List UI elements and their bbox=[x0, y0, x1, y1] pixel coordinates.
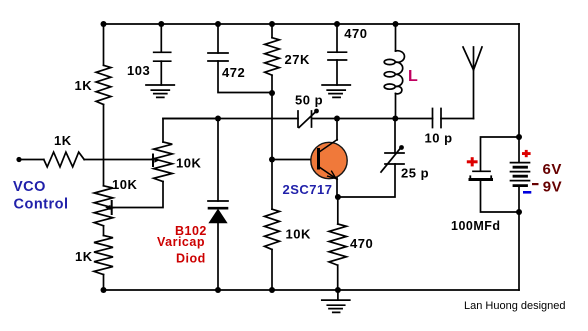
wire 27K bottom to node bbox=[271, 75, 273, 93]
antenna bbox=[463, 47, 482, 119]
wire 470 cap to ground bbox=[336, 60, 338, 85]
ground under 470 cap bbox=[322, 85, 350, 97]
wire right column top (rail to battery +) bbox=[518, 24, 520, 162]
trimmer capacitor 50p plates bbox=[298, 111, 312, 127]
transistor Q1 2SC717 bbox=[311, 140, 347, 180]
node bottom rail left bbox=[101, 287, 107, 293]
node 25p arrow tip bbox=[399, 145, 404, 150]
capacitor 10p plates bbox=[433, 109, 442, 128]
wire left column middle bbox=[103, 105, 105, 186]
wire VCO input terminal lead bbox=[19, 159, 44, 161]
node varicap bbox=[215, 116, 221, 122]
svg-text:10K: 10K bbox=[286, 227, 311, 242]
svg-text:VCO: VCO bbox=[13, 179, 46, 195]
svg-text:L: L bbox=[408, 68, 418, 85]
svg-text:1K: 1K bbox=[54, 133, 72, 148]
node rail L bbox=[393, 21, 399, 27]
node bottom rail varicap bbox=[215, 287, 221, 293]
wire base node to transistor base bbox=[272, 159, 318, 161]
wire 472 cap top lead bbox=[217, 24, 219, 53]
battery BT1 plates bbox=[511, 163, 530, 181]
wire top supply rail bbox=[104, 23, 520, 25]
node battery plus bbox=[516, 134, 522, 140]
wire varicap node down bbox=[217, 119, 219, 202]
svg-text:Lan Huong designed: Lan Huong designed bbox=[464, 300, 566, 312]
svg-text:470: 470 bbox=[344, 26, 367, 41]
capacitor 470 plates bbox=[328, 52, 347, 60]
svg-text:472: 472 bbox=[222, 65, 245, 80]
wire varicap to bottom rail bbox=[217, 223, 219, 290]
wire pot1 top lead to varicap node bbox=[163, 119, 218, 143]
trimmer 25p arrow bbox=[381, 148, 401, 173]
label minus 9V bbox=[532, 183, 539, 185]
wire left column top (rail to R 1K) bbox=[103, 24, 105, 65]
wire L top lead bbox=[395, 24, 397, 51]
pot2 wiper bar and tip bbox=[111, 201, 113, 214]
wire 25p top lead bbox=[394, 119, 396, 154]
node VCO input terminal bbox=[16, 157, 21, 162]
wire emitter node to 470 resistor bbox=[337, 197, 339, 224]
node base bbox=[269, 157, 275, 163]
label minus battery blue bbox=[523, 191, 531, 194]
svg-text:470: 470 bbox=[350, 236, 373, 251]
capacitor 472 plates bbox=[208, 53, 228, 61]
svg-text:Diod: Diod bbox=[176, 251, 206, 265]
node L bottom bbox=[392, 116, 398, 122]
svg-text:25 p: 25 p bbox=[401, 166, 429, 181]
node bottom rail 10K bbox=[269, 287, 275, 293]
wire input node to pot wiper bbox=[84, 159, 153, 161]
svg-text:Varicap: Varicap bbox=[157, 235, 205, 249]
node rail 470 bbox=[334, 21, 340, 27]
node rail 472 bbox=[215, 21, 221, 27]
wire 103 cap top lead bbox=[160, 24, 162, 52]
node collector tank bbox=[334, 116, 340, 122]
potentiometer VR1 10K body bbox=[154, 142, 173, 182]
wire left column to bottom rail bbox=[103, 275, 105, 291]
svg-text:10 p: 10 p bbox=[425, 131, 453, 146]
node emitter bbox=[335, 194, 341, 200]
wire emitter down bbox=[336, 178, 338, 198]
inductor L coil bbox=[396, 51, 405, 94]
svg-text:10K: 10K bbox=[112, 177, 137, 192]
trimmer capacitor 25p plates bbox=[385, 153, 404, 164]
svg-text:2SC717: 2SC717 bbox=[283, 182, 333, 197]
wire collector up to tank node bbox=[336, 119, 338, 141]
ground under 103 bbox=[146, 85, 174, 97]
svg-text:27K: 27K bbox=[285, 52, 310, 67]
svg-text:9V: 9V bbox=[543, 179, 562, 196]
resistor R 1K (bottom left vertical) bbox=[94, 236, 113, 275]
wire right column bottom (battery - to bottom rail) bbox=[518, 187, 520, 291]
svg-text:100MFd: 100MFd bbox=[451, 219, 501, 233]
wire 10p right to antenna bbox=[441, 118, 474, 120]
node rail 27K bbox=[269, 21, 275, 27]
wire left column below pot bbox=[103, 226, 105, 236]
resistor R 1K (horizontal input) bbox=[44, 152, 84, 167]
resistor 27K bbox=[265, 38, 280, 75]
wire 472 bottom to 27K bottom node bbox=[218, 61, 272, 93]
node rail 103 bbox=[158, 21, 164, 27]
wire 470 cap top lead bbox=[336, 24, 338, 52]
label plus battery bbox=[522, 150, 531, 157]
svg-text:50 p: 50 p bbox=[295, 93, 323, 108]
capacitor 100MFd plates bbox=[473, 170, 490, 172]
trimmer 50p arrow bbox=[299, 112, 316, 128]
wire 50p right to 10p left bbox=[312, 118, 433, 120]
svg-text:Control: Control bbox=[14, 197, 69, 213]
node 50p arrow tip bbox=[314, 109, 319, 114]
node battery minus bbox=[516, 209, 522, 215]
label plus 100MFd bbox=[467, 157, 478, 166]
node rail left bbox=[101, 21, 107, 27]
wire 25p bottom to emitter node bbox=[337, 164, 395, 197]
wire 10K bottom to rail bbox=[271, 250, 273, 291]
svg-text:6V: 6V bbox=[543, 161, 562, 178]
wire pot1 bottom to pot2 wiper bbox=[112, 182, 163, 208]
svg-text:103: 103 bbox=[127, 63, 150, 78]
wire 470 bottom to rail bbox=[337, 265, 339, 290]
wire L bottom lead bbox=[395, 94, 397, 119]
pot1 wiper bar and tip bbox=[152, 155, 154, 167]
wire 100MFd bottom to battery bottom node bbox=[481, 181, 520, 212]
node 27K bottom bbox=[269, 90, 275, 96]
svg-text:1K: 1K bbox=[75, 78, 93, 93]
wire bottom ground rail bbox=[104, 289, 520, 291]
potentiometer VR2 10K body bbox=[94, 186, 113, 226]
wire battery top node to 100MFd bbox=[481, 137, 520, 171]
svg-text:10K: 10K bbox=[176, 156, 201, 171]
wire varicap node horizontal to 50p bbox=[163, 118, 298, 120]
node bottom rail ground bbox=[335, 287, 341, 293]
resistor 470 (emitter) bbox=[329, 224, 346, 265]
ground below bottom rail bbox=[322, 290, 350, 312]
resistor 10K (base bias lower) bbox=[265, 209, 280, 249]
wire 27K top lead bbox=[271, 24, 273, 38]
varicap diode D1 B102 symbol bbox=[208, 200, 228, 202]
capacitor 103 plates bbox=[154, 52, 171, 61]
resistor R 1K (top left vertical) bbox=[96, 65, 111, 104]
wire 27K node down to base node bbox=[271, 93, 273, 209]
svg-text:1K: 1K bbox=[75, 249, 93, 264]
wire 103 cap to ground bbox=[160, 61, 162, 85]
